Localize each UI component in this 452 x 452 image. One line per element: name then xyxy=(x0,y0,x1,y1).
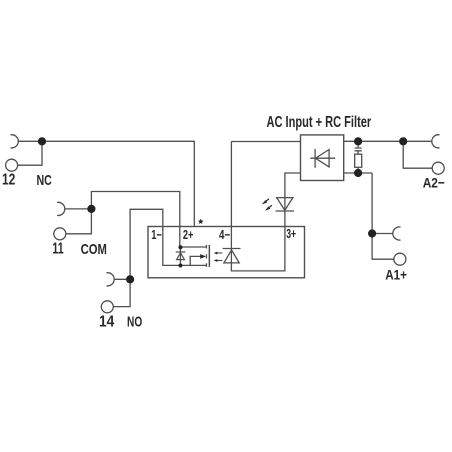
resistor R xyxy=(355,154,362,167)
wire terminal 12 to socket circle xyxy=(18,141,42,165)
socket circle terminal A2- xyxy=(432,162,444,174)
svg-text:AC Input + RC Filter: AC Input + RC Filter xyxy=(267,114,372,131)
junction node terminal 12 xyxy=(38,137,46,145)
capacitor C plates xyxy=(355,148,362,151)
junction node resistor top xyxy=(354,137,362,145)
svg-text:11: 11 xyxy=(52,241,63,258)
svg-text:4−: 4− xyxy=(219,228,230,242)
socket arc terminal A1+ xyxy=(393,227,401,240)
node marker star xyxy=(198,219,203,224)
indicator LED emission arrows xyxy=(262,199,272,211)
socket circle terminal 12 xyxy=(6,159,18,171)
socket arc terminal 14 xyxy=(106,273,114,286)
svg-text:12: 12 xyxy=(2,172,15,189)
socket circle terminal A1+ xyxy=(394,253,406,265)
socket arc terminal A2- xyxy=(432,135,440,148)
indicator LED xyxy=(276,198,294,211)
socket arc terminal 12 xyxy=(11,135,19,148)
wire terminal 11 to socket circle xyxy=(66,209,92,234)
socket circle terminal 14 xyxy=(101,301,113,313)
svg-text:NC: NC xyxy=(37,172,52,189)
photoMOS output rails xyxy=(180,245,209,267)
wire capacitor and resistor leads xyxy=(357,141,359,173)
svg-text:NO: NO xyxy=(127,314,142,331)
junction node terminal 14 xyxy=(126,275,134,283)
wire NO terminal 14 to pin 1- xyxy=(114,209,206,279)
wire NC from terminal 12 to node * xyxy=(18,141,195,226)
opto LED D1 inside box xyxy=(176,247,186,266)
wire COM terminal 11 to pin 2+ xyxy=(65,192,180,248)
light arrows into photoMOS xyxy=(214,252,223,262)
SSR component box xyxy=(148,227,305,278)
junction node terminal 11 xyxy=(87,205,95,213)
wire bridge output to A2- xyxy=(344,140,432,142)
junction node LED cathode xyxy=(178,264,182,268)
wire pin 4- to bridge input xyxy=(231,142,300,271)
svg-text:14: 14 xyxy=(99,314,114,331)
junction node resistor bottom xyxy=(354,169,362,177)
wire terminal 14 to socket circle xyxy=(113,279,130,306)
wire A1+ junction to socket arc xyxy=(372,233,393,235)
junction node LED anode xyxy=(178,245,182,249)
junction node A2- xyxy=(399,137,407,145)
svg-text:COM: COM xyxy=(81,241,107,258)
socket arc terminal 11 xyxy=(57,202,65,215)
svg-text:2+: 2+ xyxy=(183,228,194,242)
wire bridge lower to A1+ junction xyxy=(344,173,372,234)
svg-text:1−: 1− xyxy=(151,228,162,242)
bridge rectifier box xyxy=(301,135,344,181)
socket circle terminal 11 xyxy=(54,228,66,240)
svg-text:3+: 3+ xyxy=(286,227,296,241)
svg-text:A2−: A2− xyxy=(423,174,445,190)
opto emitter diode at pin 4- xyxy=(223,249,241,263)
bridge diode xyxy=(310,149,335,168)
svg-text:A1+: A1+ xyxy=(385,266,407,282)
gate arrowhead xyxy=(200,254,206,259)
wire A1+ junction to socket circle xyxy=(372,234,394,260)
junction node A1+ xyxy=(368,229,376,237)
wire A2- junction to socket circle xyxy=(403,141,432,168)
